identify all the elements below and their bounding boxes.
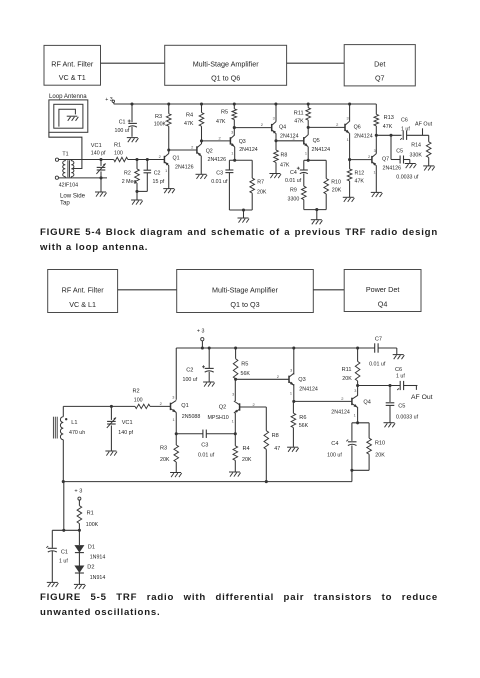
resistor R5 labels bbox=[216, 110, 228, 126]
svg-text:R2: R2 bbox=[124, 171, 131, 177]
svg-text:0.0033 uf: 0.0033 uf bbox=[396, 414, 419, 420]
ground below C1 bbox=[127, 138, 139, 143]
svg-text:Q1: Q1 bbox=[173, 155, 180, 161]
capacitor C6 labels bbox=[401, 117, 410, 132]
wire Q4 collector bbox=[275, 104, 277, 122]
svg-text:2: 2 bbox=[277, 374, 280, 379]
node Q3 base junction bbox=[200, 139, 203, 142]
svg-text:Multi-Stage Amplifier: Multi-Stage Amplifier bbox=[212, 285, 279, 294]
capacitor C7 bbox=[375, 343, 378, 352]
node R4 rail junction bbox=[200, 102, 203, 105]
R9 labels bbox=[288, 188, 300, 203]
svg-text:C1: C1 bbox=[119, 119, 126, 125]
R6 fig5-5 labels bbox=[299, 415, 309, 429]
svg-text:330K: 330K bbox=[410, 152, 423, 158]
pin 3 Q4 collector bbox=[273, 116, 275, 120]
svg-text:R8: R8 bbox=[281, 153, 288, 159]
ground below VC1 fig5-5 bbox=[105, 451, 117, 456]
node bias line left bbox=[62, 480, 65, 483]
wire Q4 emitter bbox=[275, 134, 277, 141]
pin 1 Q3 emitter fig5-5 bbox=[290, 392, 292, 396]
resistor R5 fig5-5 bbox=[233, 348, 238, 379]
svg-text:100 uf: 100 uf bbox=[115, 128, 130, 134]
capacitor C1 fig5-5 bbox=[46, 530, 57, 582]
svg-text:Q2: Q2 bbox=[206, 148, 213, 154]
capacitor C6 fig5-5 labels bbox=[395, 367, 405, 380]
pin 1 Q7 emitter bbox=[373, 171, 375, 175]
wire rail left drop to Q1 collector bbox=[175, 348, 177, 400]
svg-text:3300: 3300 bbox=[288, 196, 300, 202]
capacitor C2 fig5-5 labels bbox=[183, 368, 198, 384]
svg-text:1N914: 1N914 bbox=[90, 575, 106, 581]
resistor R2 labels bbox=[122, 171, 137, 185]
resistor R3 labels bbox=[154, 114, 167, 128]
svg-text:1 uf: 1 uf bbox=[59, 559, 68, 565]
svg-text:VC1: VC1 bbox=[122, 420, 133, 426]
wire Q2 emitter to ground bbox=[200, 156, 202, 174]
wire C4 R10 bottom to bias line bbox=[351, 470, 353, 481]
wire detector output line bbox=[376, 134, 401, 136]
transistor Q2 2N4126 bbox=[197, 144, 201, 156]
caption figure 5-4 bbox=[40, 225, 438, 255]
resistor R10 bbox=[324, 179, 329, 194]
variable capacitor VC1 fig5-5 bbox=[107, 406, 116, 451]
capacitor C5 bbox=[391, 135, 410, 163]
svg-text:20K: 20K bbox=[375, 452, 385, 458]
capacitor C4 fig5-5 bbox=[346, 440, 356, 446]
node C3 R7 bottom bbox=[242, 208, 245, 211]
ground below C1 fig5-5 bbox=[47, 582, 59, 587]
resistor R1 fig5-5 bbox=[77, 506, 82, 531]
node R11 bottom junction fig5-5 bbox=[356, 384, 359, 387]
svg-text:100: 100 bbox=[134, 398, 143, 404]
capacitor C2 fig5-5 bbox=[202, 348, 214, 382]
node Q7 collector junction bbox=[375, 134, 378, 137]
R1 fig5-5 labels bbox=[86, 510, 99, 528]
resistor R3 fig5-5 bbox=[174, 434, 179, 473]
wire bias bottom line bbox=[63, 481, 352, 483]
wire tank top line bbox=[59, 159, 114, 161]
wire to Q3 base fig5-5 bbox=[236, 378, 289, 380]
wire Q4 collector fig5-5 bbox=[357, 386, 359, 396]
svg-text:47K: 47K bbox=[184, 121, 194, 127]
svg-text:T1: T1 bbox=[62, 152, 68, 158]
pin 1 Q5 emitter bbox=[305, 151, 307, 155]
svg-text:2N4126: 2N4126 bbox=[175, 164, 194, 170]
svg-text:2N5088: 2N5088 bbox=[182, 414, 201, 420]
transistor Q4 2N4124 bbox=[272, 122, 276, 134]
resistor R14 bbox=[426, 135, 431, 166]
svg-text:2: 2 bbox=[159, 154, 162, 159]
resistor R3 bbox=[166, 104, 171, 150]
svg-text:D2: D2 bbox=[87, 564, 94, 570]
node Q4 rail junction bbox=[274, 102, 277, 105]
ground below C5 fig5-5 bbox=[384, 423, 396, 428]
svg-text:R11: R11 bbox=[294, 110, 304, 116]
node Q4 emitter junction bbox=[274, 139, 277, 142]
Q1 labels bbox=[173, 155, 194, 170]
pin 2 Q4 base fig5-5 bbox=[341, 396, 344, 401]
pin 2 Q5 base bbox=[293, 136, 296, 141]
node R8 bottom junction bbox=[265, 480, 268, 483]
svg-text:1: 1 bbox=[232, 420, 234, 424]
svg-text:R10: R10 bbox=[331, 179, 341, 185]
wire to Q6 base bbox=[308, 126, 345, 128]
svg-text:R4: R4 bbox=[186, 113, 193, 119]
Q6 labels bbox=[354, 124, 373, 139]
resistor R1 bbox=[114, 157, 128, 161]
resistor R1 labels bbox=[114, 143, 123, 157]
pin 3 Q1 collector fig5-5 bbox=[172, 395, 174, 399]
ground below R4 fig5-5 bbox=[229, 472, 241, 477]
Q4 labels bbox=[279, 124, 299, 139]
ground below Q7 bbox=[371, 192, 383, 197]
wire R2 to Q1 base bbox=[150, 405, 171, 407]
block Det Q7 bbox=[344, 45, 415, 86]
C4 labels bbox=[285, 170, 302, 184]
resistor R8 fig5-5 bbox=[264, 407, 269, 482]
resistor R6 fig5-5 bbox=[291, 401, 296, 447]
svg-text:R6: R6 bbox=[299, 415, 306, 421]
wire C6 to AF Out bbox=[407, 134, 429, 136]
svg-text:C1: C1 bbox=[61, 550, 68, 556]
node R11 rail junction fig5-5 bbox=[356, 346, 359, 349]
svg-text:Q1: Q1 bbox=[181, 403, 188, 409]
svg-text:0.01 uf: 0.01 uf bbox=[211, 179, 228, 185]
node Q6 emitter junction bbox=[348, 158, 351, 161]
T1 note Low Side Tap bbox=[60, 193, 86, 207]
ground below R8 bbox=[269, 174, 281, 179]
svg-text:47K: 47K bbox=[355, 179, 365, 185]
svg-text:2N4126: 2N4126 bbox=[383, 165, 402, 171]
wire Q7 emitter to ground bbox=[375, 166, 377, 193]
svg-text:R5: R5 bbox=[221, 110, 228, 116]
Q1 fig5-5 labels bbox=[181, 403, 200, 420]
node R3 rail junction bbox=[167, 102, 170, 105]
pin 3 Q6 collector bbox=[346, 116, 348, 120]
node Q6 rail junction bbox=[348, 102, 351, 105]
svg-text:Low Side: Low Side bbox=[60, 193, 86, 200]
node VC1 top junction bbox=[99, 158, 102, 161]
svg-text:R7: R7 bbox=[257, 180, 264, 186]
wire Q2 base to R8 bbox=[240, 406, 267, 408]
ground below D2 bbox=[74, 584, 86, 589]
R8 fig5-5 labels bbox=[272, 433, 281, 452]
svg-text:100K: 100K bbox=[86, 522, 99, 528]
svg-text:100: 100 bbox=[114, 151, 123, 157]
svg-text:RF Ant. Filter: RF Ant. Filter bbox=[51, 59, 94, 68]
ground below C2 fig5-5 bbox=[203, 382, 215, 387]
resistor R10 fig5-5 bbox=[367, 438, 372, 454]
node R11 rail junction bbox=[307, 102, 310, 105]
wire Q3 collector bbox=[233, 128, 235, 135]
svg-text:AF Out: AF Out bbox=[411, 394, 433, 401]
pin 1 Q4 emitter fig5-5 bbox=[354, 414, 356, 418]
svg-text:R1: R1 bbox=[87, 510, 94, 516]
svg-text:C5: C5 bbox=[398, 403, 405, 409]
wire to Q3 base bbox=[202, 140, 231, 142]
wire antenna to T1 tap bbox=[49, 132, 82, 168]
resistor R4 fig5-5 bbox=[233, 434, 238, 472]
svg-text:1: 1 bbox=[347, 138, 349, 142]
svg-text:47K: 47K bbox=[383, 124, 393, 130]
pin 3 Q7 collector bbox=[374, 149, 376, 153]
svg-text:C4: C4 bbox=[331, 441, 338, 447]
svg-text:56K: 56K bbox=[299, 423, 309, 429]
D1 labels bbox=[88, 544, 106, 560]
capacitor C2 labels bbox=[153, 171, 165, 185]
diode D2 1N914 bbox=[74, 566, 84, 574]
wire Q4 emitter fig5-5 bbox=[357, 407, 359, 423]
Q3 labels bbox=[239, 139, 258, 153]
supply +3 terminal fig5-5 bbox=[197, 329, 205, 350]
ground below R2 C2 bbox=[131, 191, 143, 204]
svg-text:Power Det: Power Det bbox=[366, 285, 400, 294]
svg-text:2N4124: 2N4124 bbox=[312, 147, 331, 153]
svg-text:2N4124: 2N4124 bbox=[331, 410, 350, 416]
resistor R2 fig5-5 labels bbox=[133, 388, 143, 403]
svg-text:+ 3: + 3 bbox=[105, 97, 113, 103]
AF Out label fig5-5 bbox=[411, 394, 433, 401]
svg-text:47K: 47K bbox=[294, 118, 304, 124]
svg-text:2N4124: 2N4124 bbox=[239, 147, 258, 153]
supply +3 terminal bbox=[105, 97, 114, 104]
svg-text:20K: 20K bbox=[242, 457, 252, 463]
wire Q1 collector to Q2 base bbox=[169, 149, 197, 151]
svg-text:1: 1 bbox=[231, 151, 233, 155]
capacitor C2 bbox=[144, 160, 152, 192]
resistor R4 bbox=[199, 104, 204, 141]
resistor R11 bbox=[306, 104, 311, 127]
svg-text:2: 2 bbox=[261, 122, 264, 127]
pin 2 Q3 base fig5-5 bbox=[277, 374, 280, 379]
pin 3 Q4 collector fig5-5 bbox=[354, 389, 356, 393]
block RF Ant. Filter VC & T1 bbox=[44, 45, 101, 85]
node R2 top bbox=[135, 158, 138, 161]
wire tank line fig5-5 bbox=[63, 405, 135, 407]
pin 1 Q1 emitter bbox=[165, 169, 167, 173]
svg-text:Q3: Q3 bbox=[239, 139, 246, 145]
svg-text:0.01 uf: 0.01 uf bbox=[369, 362, 386, 368]
R7 labels bbox=[257, 180, 267, 196]
resistor R5 fig5-5 labels bbox=[241, 361, 251, 377]
wire Q2 emitter bbox=[234, 413, 236, 434]
capacitor C4 R10 network fig5-5 bbox=[352, 423, 369, 471]
block RF Ant. Filter VC & L1 bbox=[48, 270, 118, 313]
wire block1-block2 bbox=[101, 62, 165, 64]
svg-text:R5: R5 bbox=[241, 361, 248, 367]
Q7 labels bbox=[382, 156, 401, 171]
wire D1 to D2 bbox=[78, 553, 80, 566]
svg-text:2: 2 bbox=[160, 401, 163, 406]
resistor R12 bbox=[347, 160, 352, 198]
transistor Q2 MPSH10 bbox=[234, 401, 240, 413]
wire C6 to AF Out fig5-5 bbox=[404, 385, 418, 387]
svg-text:Det: Det bbox=[374, 59, 385, 68]
svg-text:C6: C6 bbox=[395, 367, 402, 373]
svg-text:100K: 100K bbox=[154, 121, 167, 127]
wire bias bar bbox=[52, 529, 81, 532]
pin 2 Q7 base bbox=[368, 154, 371, 159]
D2 labels bbox=[87, 564, 105, 581]
wire Q3 collector fig5-5 bbox=[293, 348, 295, 375]
wire to Q7 base bbox=[350, 159, 372, 161]
capacitor C4 R9 R10 network box bbox=[304, 159, 326, 210]
ground below VC1 bbox=[95, 178, 107, 197]
wire C7 to ground bbox=[378, 348, 397, 355]
wire +3 supply rail fig5-5 bbox=[176, 347, 374, 349]
T1 value 42IF104 bbox=[59, 182, 78, 188]
resistor R13 bbox=[374, 104, 379, 135]
svg-text:D1: D1 bbox=[88, 544, 95, 550]
node R5 bottom junction fig5-5 bbox=[234, 378, 237, 381]
wire Q2 collector bbox=[234, 379, 236, 401]
svg-text:R11: R11 bbox=[342, 367, 352, 373]
transistor Q5 2N4124 bbox=[304, 135, 308, 147]
node C4 R10 bottom bbox=[315, 208, 318, 211]
ground right of C7 bbox=[393, 355, 405, 360]
node R5 rail junction bbox=[233, 102, 236, 105]
block Multi-Stage Amplifier Q1 to Q6 bbox=[165, 45, 287, 85]
node Q2 emitter junction bbox=[234, 432, 237, 435]
wire block2-block3 fig5-5 bbox=[313, 289, 344, 291]
svg-text:Multi-Stage Amplifier: Multi-Stage Amplifier bbox=[193, 60, 260, 69]
wire Q6 emitter bbox=[349, 133, 351, 159]
svg-text:2: 2 bbox=[253, 402, 256, 407]
svg-text:2N4124: 2N4124 bbox=[280, 133, 299, 139]
wire Q6 collector bbox=[349, 104, 351, 122]
wire to Q5 base bbox=[276, 140, 304, 142]
pin 3 Q2 collector bbox=[232, 392, 234, 396]
R14 labels bbox=[410, 142, 423, 158]
capacitor C6 fig5-5 bbox=[397, 381, 403, 390]
transistor Q1 2N5088 bbox=[171, 400, 177, 412]
wire Q1 emitter bbox=[175, 412, 177, 433]
svg-text:C4: C4 bbox=[290, 170, 297, 176]
wire Q1 emitter to ground bbox=[168, 165, 170, 188]
svg-text:C3: C3 bbox=[216, 170, 223, 176]
capacitor C4 bbox=[297, 167, 308, 174]
node VC1 junction fig5-5 bbox=[110, 405, 113, 408]
svg-text:47K: 47K bbox=[216, 119, 226, 125]
transformer T1 bbox=[55, 158, 74, 179]
node C5 branch fig5-5 bbox=[388, 384, 391, 387]
variable capacitor VC1 bbox=[96, 160, 105, 178]
Q2 labels bbox=[206, 148, 226, 163]
svg-text:2N4124: 2N4124 bbox=[354, 133, 373, 139]
pin 1 Q6 emitter bbox=[347, 138, 349, 142]
ground inside loop antenna bbox=[67, 116, 79, 121]
svg-text:Loop Antenna: Loop Antenna bbox=[49, 93, 87, 100]
svg-text:2: 2 bbox=[191, 145, 194, 150]
inductor L1 bbox=[53, 406, 67, 481]
capacitor C7 labels bbox=[369, 336, 386, 367]
wire to Q4 base bbox=[234, 127, 271, 129]
R12 labels bbox=[355, 170, 365, 184]
resistor R7 bbox=[250, 178, 255, 193]
ground below R3 fig5-5 bbox=[170, 473, 182, 478]
svg-text:Q5: Q5 bbox=[313, 138, 320, 144]
svg-text:C5: C5 bbox=[396, 148, 403, 154]
C1 fig5-5 labels bbox=[59, 550, 68, 565]
svg-text:Q6: Q6 bbox=[354, 124, 361, 130]
ground below C4 R10 bbox=[311, 210, 323, 225]
svg-text:47: 47 bbox=[274, 446, 280, 452]
node Q4 emitter junction fig5-5 bbox=[356, 421, 359, 424]
svg-text:2N4126: 2N4126 bbox=[208, 157, 227, 163]
pin 3 Q3 collector bbox=[231, 130, 233, 134]
svg-text:1: 1 bbox=[305, 151, 307, 155]
pin 2 Q6 base bbox=[336, 122, 339, 127]
svg-text:Q3: Q3 bbox=[298, 377, 305, 383]
pin 3 Q3 collector fig5-5 bbox=[290, 369, 292, 373]
svg-text:R13: R13 bbox=[384, 115, 394, 121]
wire output line fig5-5 bbox=[358, 385, 401, 387]
wire block1-block2 fig5-5 bbox=[118, 289, 177, 291]
svg-text:2: 2 bbox=[336, 122, 339, 127]
pin 1 Q1 emitter fig5-5 bbox=[172, 418, 174, 422]
transistor Q4 2N4124 fig5-5 bbox=[352, 395, 358, 407]
node C5 branch junction bbox=[389, 134, 392, 137]
R10 labels bbox=[331, 179, 341, 193]
node R5 bottom junction bbox=[233, 126, 236, 129]
transistor Q1 2N4126 bbox=[164, 154, 168, 166]
svg-text:15 pf: 15 pf bbox=[153, 179, 165, 185]
resistor R11 fig5-5 bbox=[355, 348, 360, 386]
svg-text:2: 2 bbox=[218, 136, 221, 141]
AF Out label bbox=[415, 121, 433, 127]
wire Q1 collector bbox=[168, 150, 170, 154]
svg-text:R8: R8 bbox=[272, 433, 279, 439]
node C4 R10 bottom fig5-5 bbox=[350, 469, 353, 472]
svg-text:R4: R4 bbox=[243, 446, 250, 452]
svg-text:AF Out: AF Out bbox=[415, 121, 433, 127]
svg-text:L1: L1 bbox=[71, 420, 77, 426]
svg-text:3: 3 bbox=[290, 369, 292, 373]
R8 labels bbox=[280, 153, 290, 169]
node Q3 emitter junction fig5-5 bbox=[292, 400, 295, 403]
ground below R14 bbox=[423, 166, 435, 171]
caption figure 5-5 bbox=[40, 590, 438, 620]
svg-text:C6: C6 bbox=[401, 117, 408, 123]
svg-text:140 pf: 140 pf bbox=[91, 151, 106, 157]
svg-text:1: 1 bbox=[290, 392, 292, 396]
wire Q3 emitter bbox=[234, 147, 236, 160]
pin 2 Q3 base bbox=[218, 136, 221, 141]
R4 fig5-5 labels bbox=[242, 446, 252, 463]
svg-text:20K: 20K bbox=[257, 190, 267, 196]
wire C3 to Q2 emitter bbox=[206, 433, 235, 435]
svg-text:Q7: Q7 bbox=[382, 156, 389, 162]
node C1 rail junction bbox=[130, 102, 133, 105]
wire Q5 collector bbox=[307, 127, 309, 134]
svg-text:140 pf: 140 pf bbox=[118, 430, 133, 436]
svg-text:20K: 20K bbox=[342, 376, 352, 382]
node Q1 emitter junction bbox=[175, 432, 178, 435]
capacitor C3 bbox=[225, 170, 233, 173]
resistor R13 labels bbox=[383, 115, 394, 130]
svg-text:1 uf: 1 uf bbox=[401, 127, 410, 133]
transformer T1 label bbox=[62, 152, 68, 158]
C3 labels bbox=[211, 170, 228, 185]
ground below R6 fig5-5 bbox=[287, 447, 299, 452]
pin 2 Q1 base fig5-5 bbox=[160, 401, 163, 406]
svg-text:56K: 56K bbox=[241, 371, 251, 377]
Q3 fig5-5 labels bbox=[298, 377, 318, 392]
node C2 rail junction bbox=[208, 346, 211, 349]
ground below R12 bbox=[343, 197, 355, 202]
wire D2 to ground bbox=[78, 573, 80, 584]
